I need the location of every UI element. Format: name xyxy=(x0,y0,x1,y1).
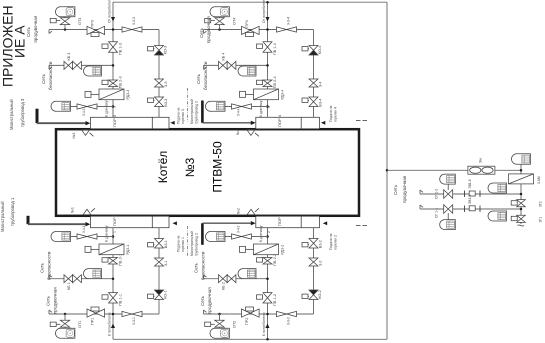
svg-text:3-1: 3-1 xyxy=(164,261,168,267)
svg-text:Сеть: Сеть xyxy=(199,27,204,38)
svg-text:2: 2 xyxy=(267,231,271,233)
svg-text:безопасности: безопасности xyxy=(47,251,52,280)
valve ПВ 2-3 xyxy=(109,80,118,87)
svg-text:трубопровод 1: трубопровод 1 xyxy=(10,197,15,226)
svg-text:трубопровод 3: трубопровод 3 xyxy=(20,98,25,127)
flag at header ПОР4 xyxy=(247,130,255,136)
pipe: safety branch cluster 2 xyxy=(204,278,268,280)
svg-text:Сеть: Сеть xyxy=(40,262,45,273)
valve 3-4 xyxy=(309,79,318,87)
flag at header ПОР1 xyxy=(83,209,91,215)
junction bottom pipe / riser 2 xyxy=(266,338,269,341)
svg-text:№3: №3 xyxy=(183,157,197,177)
svg-text:3-3: 3-3 xyxy=(164,82,168,88)
safety valve КБ 3 left xyxy=(64,61,73,69)
regulating valve РД3-4 xyxy=(254,89,279,100)
svg-text:ПОР 1: ПОР 1 xyxy=(112,213,117,226)
pipe: stub ОТ4 xyxy=(219,16,221,30)
pipe: safety branch cluster 4 xyxy=(204,64,268,66)
svg-text:№3: №3 xyxy=(72,133,76,139)
sample cooler (two ellipses) xyxy=(468,166,495,174)
valve ПР2 xyxy=(242,309,260,317)
svg-text:ПВ 1-1: ПВ 1-1 xyxy=(119,294,123,306)
svg-text:ПР4: ПР4 xyxy=(245,20,249,27)
pipe: right cluster line1 xyxy=(387,169,521,171)
svg-text:3Г1: 3Г1 xyxy=(539,217,543,223)
valve ОТ1 xyxy=(60,320,69,327)
svg-text:От потребителя: От потребителя xyxy=(262,0,266,23)
pipe: safety branch cluster 1 xyxy=(49,278,113,280)
svg-text:ОТ4: ОТ4 xyxy=(233,18,237,25)
valve 3Г2 xyxy=(517,200,526,207)
svg-text:ПВ 1-4: ПВ 1-4 xyxy=(273,43,277,55)
svg-text:3-2: 3-2 xyxy=(319,261,323,267)
svg-text:От потребителя: От потребителя xyxy=(108,0,112,23)
junction xyxy=(218,313,221,316)
svg-text:3-4-3: 3-4-3 xyxy=(82,108,86,116)
svg-text:Котёл: Котёл xyxy=(156,151,170,184)
pipe: riser 4 xyxy=(267,2,269,117)
junction xyxy=(112,64,115,67)
svg-text:3-3-4: 3-3-4 xyxy=(287,17,291,25)
header box ПОР3 xyxy=(91,117,170,129)
svg-text:Сеть: Сеть xyxy=(41,73,46,84)
valve ПВ 1-3 xyxy=(109,42,118,52)
drain squiggle xyxy=(518,225,525,226)
junction xyxy=(266,105,269,108)
actuator dome ОТ1-1 xyxy=(440,220,456,230)
boiler: Котёл №3 ПТВМ-50 xyxy=(56,129,359,216)
valve ПВ 1-1 xyxy=(109,293,118,303)
svg-text:КБ 3: КБ 3 xyxy=(67,53,71,61)
flex insert 3-3-2 xyxy=(277,311,297,316)
svg-text:Магистральный: Магистральный xyxy=(190,99,194,124)
pipe: drain column 2 xyxy=(313,228,315,314)
junction xyxy=(266,64,269,67)
svg-text:3Г2: 3Г2 xyxy=(539,201,543,207)
flange pair ЭВ1-3 xyxy=(464,206,466,213)
svg-text:№1: №1 xyxy=(71,207,75,213)
valve 3-3 xyxy=(155,79,164,87)
junction xyxy=(112,235,115,238)
arrow into header ПОР1 xyxy=(86,222,91,226)
svg-text:Сеть: Сеть xyxy=(393,184,398,195)
instrument dome on safety branch 1 xyxy=(84,269,102,279)
safety valve КБ 1 right xyxy=(73,275,82,283)
svg-text:К дренажу: К дренажу xyxy=(105,100,109,117)
svg-text:ПВ 2-1: ПВ 2-1 xyxy=(119,254,123,266)
arrow at ПОР2 box right xyxy=(323,221,327,225)
svg-text:1: 1 xyxy=(113,231,117,233)
junction xyxy=(64,28,67,31)
svg-text:Магистральный: Магистральный xyxy=(0,201,5,232)
pipe: blowdown header top run xyxy=(113,1,387,3)
valve ПВ 2-1 xyxy=(109,257,118,264)
svg-text:Подача на: Подача на xyxy=(329,105,333,122)
svg-text:СГ 1-2: СГ 1-2 xyxy=(435,189,439,199)
valve ПВ 1-4 xyxy=(263,42,272,52)
valve ПР4 xyxy=(242,26,260,34)
safety valve КБ 1 left xyxy=(64,275,73,283)
actuator dome ОТ3 xyxy=(56,7,75,17)
pipe: right cluster line3 xyxy=(420,208,521,210)
valve В3-4 xyxy=(309,97,318,107)
safety valve КБ 2 left xyxy=(219,275,228,283)
line: burner feed 1 dash-dot xyxy=(187,226,189,256)
svg-text:безопасности: безопасности xyxy=(203,61,208,90)
header box ПОР4 xyxy=(256,117,320,129)
svg-text:Сеть: Сеть xyxy=(200,295,205,306)
svg-text:№2: №2 xyxy=(237,208,241,214)
flag at header ПОР2 xyxy=(247,209,255,215)
svg-text:В3-2: В3-2 xyxy=(319,240,323,248)
svg-text:Подача на: Подача на xyxy=(329,233,333,250)
svg-text:продувочная: продувочная xyxy=(206,16,211,43)
junction line1/vertical xyxy=(520,169,523,172)
pipe: stub ОТ1 xyxy=(64,314,66,328)
junction xyxy=(112,277,115,280)
svg-text:горелки 3: горелки 3 xyxy=(181,109,185,124)
safety valve КБ 2 right xyxy=(227,275,236,283)
pipe: blowdown header right run xyxy=(386,2,388,339)
check valve КО-4 xyxy=(309,45,318,50)
pipe: hot water main 2 lower stub (thick) xyxy=(201,223,204,245)
valve ОТ3 xyxy=(60,18,69,25)
check valve КО-2 xyxy=(309,290,318,295)
flange pair ЭВ1-6 xyxy=(464,191,466,198)
regulating valve РД3-6 xyxy=(509,174,534,184)
svg-text:Зм: Зм xyxy=(479,158,483,163)
pressure dome 4 upper xyxy=(206,101,225,111)
pipe: drain column 3 xyxy=(158,30,160,118)
actuator dome ОТ1-2 xyxy=(440,174,456,184)
check valve КО-1 xyxy=(155,290,164,295)
svg-text:РД3-3: РД3-3 xyxy=(126,90,130,100)
arrow at ПОР1 box right xyxy=(173,221,177,225)
arrow into header ПОР4 xyxy=(251,121,256,125)
instrument dome on safety branch 2 xyxy=(238,269,256,279)
svg-text:КБ 2: КБ 2 xyxy=(222,282,226,290)
instrument dome on safety branch 3 xyxy=(84,66,102,76)
svg-text:Сеть: Сеть xyxy=(194,262,199,273)
arrow into header ПОР2 xyxy=(251,221,256,225)
svg-text:ЭВ1-3: ЭВ1-3 xyxy=(468,195,472,204)
valve 3-1 xyxy=(155,258,164,266)
valve ПР3 xyxy=(87,26,105,34)
svg-text:В3-3: В3-3 xyxy=(164,99,168,107)
valve ПВ 2-4 xyxy=(263,80,272,87)
control valve ОТ1-1 xyxy=(444,205,453,214)
svg-text:ПР2: ПР2 xyxy=(245,318,249,325)
junction xyxy=(64,313,67,316)
junction line3/vertical xyxy=(520,208,523,211)
svg-text:3-4-4: 3-4-4 xyxy=(237,108,241,116)
flow arrow riser 1 xyxy=(111,324,115,329)
safety valve КБ 4 left xyxy=(219,61,228,69)
svg-text:3: 3 xyxy=(113,106,117,108)
impulse line 3 upper xyxy=(71,106,114,108)
pipe: riser 1 xyxy=(112,228,114,340)
svg-text:продувочная: продувочная xyxy=(402,175,407,203)
svg-text:В3-1: В3-1 xyxy=(164,240,168,248)
pipe: right cluster line2 xyxy=(420,193,521,195)
valve 3-2 xyxy=(309,258,318,266)
dash mark 2 xyxy=(356,225,361,227)
instrument dome on safety branch 4 xyxy=(238,66,256,76)
svg-text:ПВ 1-2: ПВ 1-2 xyxy=(273,294,277,306)
pipe: hot water main 2 upper stub (thick) xyxy=(201,101,204,123)
header box ПОР1 xyxy=(91,216,170,228)
pipe: hot water main 3 (thick) xyxy=(36,109,39,124)
junction top pipe / riser 4 xyxy=(266,1,269,4)
valve В3-2 xyxy=(309,238,318,248)
svg-text:горелки 2: горелки 2 xyxy=(334,235,338,250)
regulating valve РД3-2 xyxy=(254,244,279,255)
svg-text:КО-4: КО-4 xyxy=(318,46,322,55)
junction line2/vertical xyxy=(520,193,523,196)
svg-text:ОТ2: ОТ2 xyxy=(233,321,237,328)
actuator dome ОТ4 xyxy=(210,7,229,17)
svg-text:3-3-1: 3-3-1 xyxy=(132,317,136,325)
valve ПВ 1-2 xyxy=(263,293,272,303)
actuator dome ОТ2 xyxy=(210,328,229,338)
svg-text:К дренажу: К дренажу xyxy=(259,100,263,117)
pipe: branch 1 cluster 1 xyxy=(49,313,159,315)
svg-text:ПВ 2-3: ПВ 2-3 xyxy=(119,76,123,88)
svg-text:продувочная: продувочная xyxy=(53,287,58,314)
svg-text:безопасности: безопасности xyxy=(201,251,206,280)
impulse line 4 upper xyxy=(225,106,268,108)
arrow into header ПОР3 xyxy=(86,121,91,125)
svg-text:КБ 4: КБ 4 xyxy=(222,53,226,61)
header box ПОР2 xyxy=(256,216,320,228)
svg-text:ОТ1: ОТ1 xyxy=(78,321,82,328)
svg-text:Сеть: Сеть xyxy=(46,295,51,306)
svg-text:трубопровод 2: трубопровод 2 xyxy=(195,233,199,256)
svg-text:4: 4 xyxy=(267,106,271,108)
svg-text:К потребителю: К потребителю xyxy=(108,312,112,336)
svg-text:ПВ 1-3: ПВ 1-3 xyxy=(119,43,123,55)
pipe: right cluster vertical xyxy=(520,164,522,224)
regulating valve РД3-3 xyxy=(99,89,124,100)
svg-text:ПР1: ПР1 xyxy=(91,318,95,325)
svg-text:ПВ 2-4: ПВ 2-4 xyxy=(273,76,277,88)
control valve ОТ1-2 xyxy=(444,190,453,199)
svg-text:3-3-2: 3-3-2 xyxy=(287,317,291,325)
impulse line 1 lower xyxy=(71,236,114,238)
junction xyxy=(112,313,115,316)
svg-text:РД3-4: РД3-4 xyxy=(281,90,285,100)
check valve КО-3 xyxy=(155,45,164,50)
pressure dome 1 lower xyxy=(51,232,71,242)
svg-text:Магистральный: Магистральный xyxy=(190,231,194,256)
arrow at ПОР3 box right xyxy=(170,121,174,125)
svg-text:3-4-1: 3-4-1 xyxy=(82,225,86,233)
instrument dome line3 xyxy=(488,211,507,221)
svg-text:горелки 4: горелки 4 xyxy=(334,107,338,122)
pressure dome 2 lower xyxy=(206,232,225,242)
pressure dome 3 upper xyxy=(51,101,71,111)
valve В3-1 xyxy=(155,238,164,248)
flow arrow riser 2 xyxy=(265,324,269,329)
svg-text:ПОР 4: ПОР 4 xyxy=(277,114,282,127)
svg-text:ПР3: ПР3 xyxy=(91,20,95,27)
junction blowdown header / line1 xyxy=(386,169,389,172)
pipe: blowdown header bottom run xyxy=(113,338,387,340)
arrow at ПОР4 box right xyxy=(321,121,325,125)
flow arrow riser 4 xyxy=(265,17,269,22)
pipe: riser 2 xyxy=(267,228,269,340)
pipe: drain column 4 xyxy=(313,30,315,118)
valve ПВ 2-2 xyxy=(263,257,272,264)
impulse line 2 lower xyxy=(225,236,268,238)
svg-text:3-4-2: 3-4-2 xyxy=(237,225,241,233)
flex insert 3-3-3 xyxy=(122,27,142,32)
svg-text:горелки 1: горелки 1 xyxy=(181,237,185,252)
actuator dome right regulator xyxy=(511,154,530,165)
valve 3Г1 xyxy=(517,215,526,222)
junction xyxy=(112,105,115,108)
svg-text:Подача на: Подача на xyxy=(177,107,181,124)
svg-text:безопасности: безопасности xyxy=(48,61,53,90)
junction xyxy=(266,235,269,238)
svg-text:СГ 1-1: СГ 1-1 xyxy=(435,208,439,218)
svg-text:продувочная: продувочная xyxy=(33,15,38,42)
pipe: branch 1 cluster 3 xyxy=(49,29,159,31)
pipe: drain column 1 xyxy=(158,228,160,314)
valve ПР1 xyxy=(87,309,105,317)
svg-text:ОТ3: ОТ3 xyxy=(78,18,82,25)
flex insert 3-3-4 xyxy=(277,27,297,32)
junction xyxy=(266,28,269,31)
flag at header ПОР3 xyxy=(82,130,90,136)
pipe: riser 3 xyxy=(112,2,114,117)
svg-text:ПВ 2-2: ПВ 2-2 xyxy=(273,254,277,266)
svg-text:К потребителю: К потребителю xyxy=(262,312,266,336)
instrument dome line2 xyxy=(488,183,507,193)
line: burner feed 3 dash-dot xyxy=(187,88,189,122)
junction xyxy=(266,277,269,280)
svg-text:3-4: 3-4 xyxy=(319,82,323,88)
pipe: stub ОТ2 xyxy=(219,314,221,328)
valve В3-3 xyxy=(155,97,164,107)
regulating valve РД3-1 xyxy=(99,244,124,255)
svg-text:ПТВМ-50: ПТВМ-50 xyxy=(211,141,225,193)
junction xyxy=(266,313,269,316)
junction xyxy=(218,28,221,31)
safety valve КБ 4 right xyxy=(227,61,236,69)
svg-text:КБ 1: КБ 1 xyxy=(67,282,71,290)
dash mark 1 xyxy=(356,120,361,122)
junction xyxy=(112,28,115,31)
svg-text:3-3-3: 3-3-3 xyxy=(132,17,136,25)
svg-text:РД3-2: РД3-2 xyxy=(281,245,285,255)
flex insert 3-3-1 xyxy=(122,311,142,316)
svg-text:В3-4: В3-4 xyxy=(319,99,323,107)
pipe: branch 1 cluster 2 xyxy=(204,313,314,315)
pipe: stub ОТ3 xyxy=(64,16,66,30)
svg-text:продувочная: продувочная xyxy=(207,287,212,314)
actuator dome ОТ1 xyxy=(55,328,74,338)
svg-text:трубопровод 2: трубопровод 2 xyxy=(195,101,199,124)
svg-text:К дренажу: К дренажу xyxy=(105,225,109,242)
svg-text:Сеть: Сеть xyxy=(26,26,31,37)
svg-text:КО-1: КО-1 xyxy=(164,290,168,299)
svg-text:КО-3: КО-3 xyxy=(164,46,168,55)
pipe: safety branch cluster 3 xyxy=(49,64,113,66)
svg-text:Сеть: Сеть xyxy=(196,73,201,84)
pipe: hot water main 1 (thick) xyxy=(27,216,30,224)
svg-text:Подача на: Подача на xyxy=(177,235,181,252)
svg-text:ПОР 2: ПОР 2 xyxy=(277,213,282,226)
svg-text:КО-2: КО-2 xyxy=(318,290,322,299)
flow arrow riser 3 xyxy=(111,17,115,22)
safety valve КБ 3 right xyxy=(73,61,82,69)
svg-text:№4: №4 xyxy=(236,129,240,135)
svg-text:ЭВ1-6: ЭВ1-6 xyxy=(468,179,472,188)
valve ОТ4 xyxy=(215,18,224,25)
pipe: branch 1 cluster 4 xyxy=(204,29,314,31)
svg-text:К дренажу: К дренажу xyxy=(259,225,263,242)
svg-text:3-6М: 3-6М xyxy=(537,176,541,184)
valve ОТ2 xyxy=(215,320,224,327)
svg-text:РД3-1: РД3-1 xyxy=(126,245,130,255)
svg-text:Магистральный: Магистральный xyxy=(9,99,14,130)
